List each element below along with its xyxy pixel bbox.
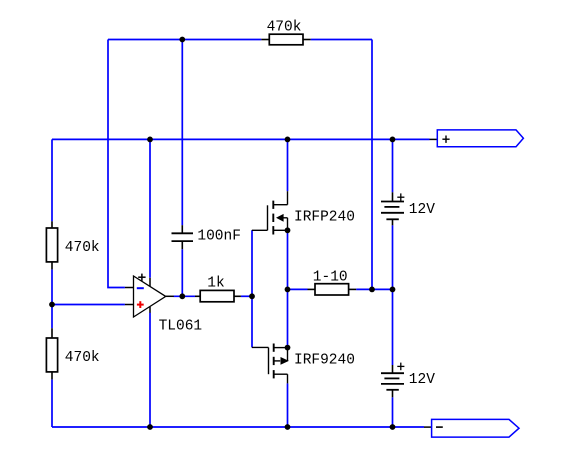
- wire cap bottom vertical x182: [181, 249, 183, 296]
- B2 plus mark: [397, 363, 404, 371]
- wire 1-10 right: [356, 288, 392, 290]
- resistor R2 470k upper-left: [46, 221, 57, 269]
- node pfet source: [285, 345, 291, 351]
- Q1 arrow: [276, 214, 284, 222]
- svg-text:100nF: 100nF: [197, 229, 241, 245]
- connector J1 plus output: [430, 130, 524, 147]
- wire 1k to gate node: [241, 295, 252, 297]
- svg-text:1-10: 1-10: [313, 269, 348, 285]
- wire 1-10 left: [288, 288, 308, 290]
- svg-text:1k: 1k: [207, 276, 224, 292]
- node opamp V- bottom: [147, 424, 153, 430]
- wire battery rail lower: [392, 397, 394, 427]
- wire cap top vertical x182: [181, 40, 183, 226]
- resistor R5 1-10: [308, 284, 357, 295]
- svg-text:12V: 12V: [409, 202, 435, 218]
- node battery bottom: [390, 424, 396, 430]
- wire x52 vertical middle: [51, 269, 53, 328]
- opamp plus power mark: [138, 274, 145, 281]
- battery B1 12V top: [381, 192, 404, 225]
- wire nfet drain vertical: [287, 139, 289, 191]
- J1 plus mark: [442, 136, 449, 143]
- op-amp U1 TL061: [125, 276, 174, 317]
- connector J2 minus output: [424, 419, 519, 437]
- wire top-right horizontal: [311, 39, 372, 41]
- transistor Q1 IRFP240 n-channel mosfet: [252, 191, 288, 234]
- node nfet source: [285, 227, 291, 233]
- svg-text:470k: 470k: [267, 19, 302, 35]
- node nfet drain tap: [285, 137, 291, 143]
- wire x52 vertical lower: [51, 379, 53, 427]
- wire plus output: [393, 138, 430, 140]
- wire feedback vertical x372: [371, 40, 373, 290]
- battery B2 12V bottom: [381, 365, 404, 397]
- resistor R3 470k lower-left: [46, 328, 57, 379]
- svg-text:470k: 470k: [65, 350, 100, 366]
- node gate drive: [249, 293, 255, 299]
- node output tap left: [285, 287, 291, 293]
- node left divider: [49, 302, 55, 308]
- svg-text:TL061: TL061: [159, 319, 203, 335]
- svg-text:470k: 470k: [65, 240, 100, 256]
- opamp inverting input minus mark: [137, 287, 144, 289]
- Q2 arrow: [281, 357, 289, 365]
- wire battery rail middle: [392, 225, 394, 365]
- opamp noninverting input plus mark: [137, 301, 144, 308]
- node opamp V+ tap: [147, 137, 153, 143]
- node feedback join: [369, 287, 375, 293]
- wire source rail x287: [287, 230, 289, 347]
- wire opamp V- vertical x150: [149, 313, 151, 427]
- svg-text:IRF9240: IRF9240: [294, 352, 355, 368]
- node rail mid: [390, 287, 396, 293]
- wire left vertical x108 (inverting input feed): [108, 40, 125, 288]
- J2 minus mark: [436, 426, 443, 428]
- node opamp output: [179, 293, 185, 299]
- resistor R4 1k: [195, 290, 241, 301]
- svg-text:IRFP240: IRFP240: [294, 209, 355, 225]
- wire noninverting input horizontal: [52, 304, 125, 306]
- resistor R1 470k top: [261, 34, 310, 45]
- svg-text:12V: 12V: [409, 372, 435, 388]
- transistor Q2 IRF9240 p-channel mosfet: [252, 344, 288, 384]
- wire top-left horizontal: [108, 39, 261, 41]
- B1 plus mark: [397, 193, 404, 201]
- wire mid horizontal y139: [52, 138, 393, 140]
- wire battery rail upper: [392, 139, 394, 192]
- wire opamp output to 1k: [174, 295, 196, 297]
- node pfet drain bottom: [285, 424, 291, 430]
- wire opamp V+ vertical x150: [149, 139, 151, 277]
- node plus rail: [390, 137, 396, 143]
- wire bottom horizontal: [52, 426, 424, 428]
- capacitor C1 100nF: [172, 225, 194, 249]
- wire pfet drain vertical: [287, 383, 289, 427]
- node top cap branch: [179, 37, 185, 43]
- wire gate vertical x252: [251, 230, 253, 347]
- wire x52 vertical upper: [51, 139, 53, 221]
